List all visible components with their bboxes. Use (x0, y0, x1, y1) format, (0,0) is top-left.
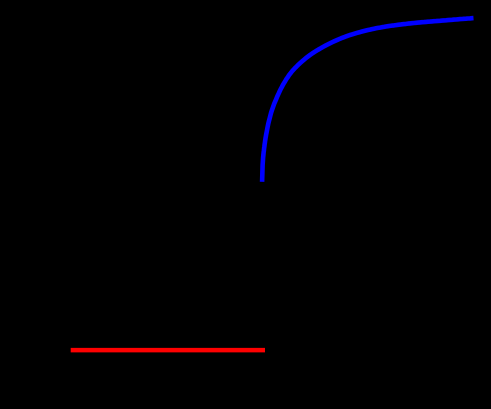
red segment (left branch) (71, 348, 265, 353)
blue curve (right branch) (262, 18, 473, 182)
